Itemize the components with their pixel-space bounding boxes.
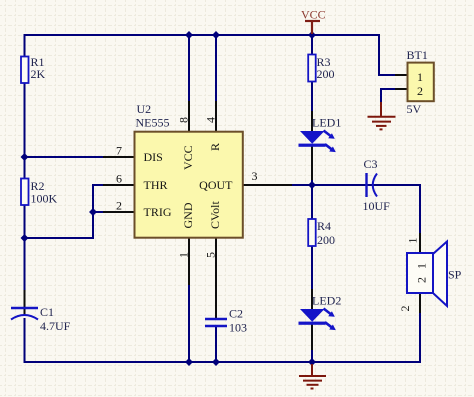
svg-text:DIS: DIS (144, 150, 163, 164)
LED LED2 (299, 294, 342, 331)
junction QOUT node (308, 181, 316, 189)
pin number 3 (252, 169, 258, 183)
wire R3 to LED1 (311, 82, 313, 112)
svg-text:6: 6 (116, 172, 122, 186)
svg-text:200: 200 (317, 233, 335, 247)
capacitor C2 (205, 307, 247, 335)
resistor R1 (21, 55, 46, 83)
svg-text:NE555: NE555 (136, 116, 170, 130)
svg-text:100K: 100K (31, 192, 58, 206)
wire QOUT net (290, 185, 420, 234)
svg-text:2: 2 (417, 84, 423, 98)
svg-text:2: 2 (398, 306, 412, 312)
junction R1 R2 DIS node (21, 153, 29, 161)
pin LED1 anode (311, 111, 313, 131)
svg-text:U2: U2 (137, 102, 152, 116)
pin U2.6 (103, 184, 135, 186)
wire pin5 to C2 (215, 300, 217, 318)
pin number 4 (204, 117, 218, 123)
pin name QOUT (199, 178, 233, 192)
wire LED1 to QOUT (311, 178, 313, 185)
wire battery pin1 drop (379, 34, 396, 75)
svg-text:LED2: LED2 (312, 294, 341, 308)
pin number 7 (116, 144, 122, 158)
pin number 5 (204, 252, 218, 258)
wire battery pin2 to ground (381, 89, 396, 103)
pin number 6 (116, 172, 122, 186)
capacitor C1 (11, 305, 71, 333)
wire QOUT to R4 (311, 185, 313, 219)
wire R4 to LED2 (311, 246, 313, 290)
pin name TRIG (144, 205, 172, 219)
power VCC (301, 8, 326, 35)
wire speaker pin2 to rail (419, 312, 421, 363)
wire top rail (25, 34, 380, 36)
svg-text:7: 7 (116, 144, 122, 158)
pin U2.1 (188, 238, 190, 285)
svg-text:5V: 5V (407, 102, 422, 116)
wire C2 to rail (215, 327, 217, 362)
svg-text:1: 1 (177, 252, 191, 258)
svg-text:LED1: LED1 (312, 116, 341, 130)
pin U2.4 (215, 101, 217, 131)
pin name GND (181, 202, 195, 228)
pin U2.7 (103, 156, 135, 158)
svg-text:5: 5 (204, 252, 218, 258)
LED LED1 (299, 116, 342, 153)
resistor R2 (21, 179, 58, 206)
svg-text:C2: C2 (229, 307, 243, 321)
svg-text:8: 8 (177, 117, 191, 123)
pin BT1.2 (395, 88, 407, 90)
resistor R3 (308, 55, 334, 82)
svg-text:4.7UF: 4.7UF (40, 319, 71, 333)
wire left vertical (24, 34, 26, 362)
svg-text:103: 103 (229, 321, 247, 335)
pin U2.8 (188, 101, 190, 131)
wire LED2 to rail (311, 348, 313, 362)
pin U2.2 (103, 211, 135, 213)
pin BT1.1 (395, 74, 407, 76)
pin U2.5 (215, 238, 217, 318)
svg-text:2: 2 (415, 277, 429, 283)
svg-text:THR: THR (144, 178, 168, 192)
svg-text:C1: C1 (40, 305, 54, 319)
svg-text:R4: R4 (317, 219, 331, 233)
resistor R4 (308, 219, 335, 247)
pin LED1 cathode (311, 146, 313, 180)
pin name VCC (181, 145, 195, 170)
svg-text:QOUT: QOUT (199, 178, 233, 192)
svg-text:SP: SP (448, 268, 462, 282)
svg-text:1: 1 (417, 70, 423, 84)
wire pin1 to rail (188, 284, 190, 362)
pin name DIS (144, 150, 163, 164)
svg-text:VCC: VCC (301, 8, 326, 22)
capacitor C3 (363, 157, 391, 213)
pin number 1 (177, 252, 191, 258)
junction top rail pin8 (185, 31, 193, 39)
wire pin7 net (25, 156, 105, 158)
svg-text:C3: C3 (364, 157, 378, 171)
wire pin2 net (93, 211, 104, 213)
svg-text:2K: 2K (31, 67, 46, 81)
battery BT1 (407, 48, 434, 116)
pin LED2 anode (311, 289, 313, 309)
svg-text:4: 4 (204, 117, 218, 123)
wire bottom rail (24, 361, 421, 363)
svg-text:VCC: VCC (181, 145, 195, 170)
junction TRIG node (89, 208, 97, 216)
svg-text:R: R (208, 143, 222, 151)
wire R3 top (311, 35, 313, 54)
junction R2 bottom node (21, 234, 29, 242)
svg-text:CVolt: CVolt (208, 201, 222, 229)
svg-text:10UF: 10UF (363, 199, 391, 213)
svg-text:1: 1 (406, 238, 420, 244)
junction rail C2 (212, 358, 220, 366)
pin name THR (144, 178, 168, 192)
svg-text:1: 1 (415, 263, 429, 269)
wire pin6 net (25, 185, 105, 238)
junction VCC node (308, 31, 316, 39)
pin SP.2 (419, 293, 421, 313)
svg-text:2: 2 (116, 199, 122, 213)
pin name CVolt (208, 201, 222, 229)
svg-text:200: 200 (317, 67, 335, 81)
svg-text:TRIG: TRIG (144, 205, 172, 219)
speaker SP (398, 238, 462, 312)
pin SP.1 (419, 233, 421, 253)
svg-text:3: 3 (252, 169, 258, 183)
junction top rail pin4 (212, 31, 220, 39)
pin U2.3 (242, 184, 292, 186)
wire pin8 (188, 35, 190, 102)
pin number 2 (116, 199, 122, 213)
wire pin4 (215, 35, 217, 102)
ground at battery (368, 102, 396, 129)
svg-text:GND: GND (181, 202, 195, 228)
pin number 8 (177, 117, 191, 123)
junction rail pin1 (185, 358, 193, 366)
pin C1 positive (24, 290, 26, 315)
svg-text:BT1: BT1 (407, 48, 428, 62)
pin name R (208, 143, 222, 151)
op-amp U2 NE555 body (135, 102, 243, 238)
pin LED2 cathode (311, 324, 313, 350)
ground at bottom rail (299, 364, 326, 389)
junction rail ground (308, 358, 316, 366)
